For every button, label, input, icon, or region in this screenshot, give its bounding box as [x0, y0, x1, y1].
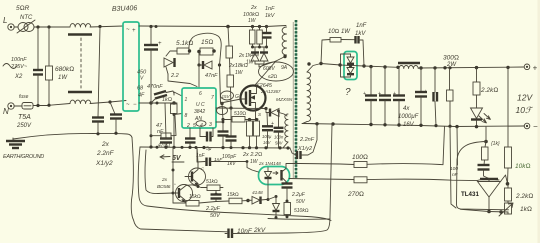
- svg-text:nF: nF: [157, 129, 164, 135]
- svg-text:2: 2: [186, 123, 190, 129]
- svg-text:{1k}: {1k}: [491, 141, 500, 147]
- svg-text:4F: 4F: [138, 93, 145, 99]
- capacitor vcc 100nF: [274, 110, 284, 148]
- svg-text:50V: 50V: [296, 199, 306, 205]
- svg-text:C: C: [201, 166, 204, 171]
- svg-text:15Ω: 15Ω: [201, 39, 213, 46]
- svg-text:50V: 50V: [275, 141, 284, 146]
- resistor 10k divider: [505, 66, 531, 186]
- capacitor 2.2nF X1 bridge: [290, 124, 317, 159]
- svg-text:+: +: [271, 121, 274, 127]
- node j13: [156, 102, 159, 105]
- node j9: [149, 25, 152, 28]
- capacitor opto 2.2uF: [282, 182, 306, 205]
- svg-text:12V: 12V: [517, 93, 533, 103]
- transistor Q3 BC546: [173, 182, 198, 203]
- wire primary ground rail: [140, 147, 290, 148]
- junction dots ground rail secondary: [315, 122, 478, 128]
- svg-text:5ΩR: 5ΩR: [16, 5, 30, 12]
- svg-text:15kΩ: 15kΩ: [189, 194, 201, 200]
- node j1: [36, 25, 39, 28]
- svg-text:X1/y2: X1/y2: [297, 146, 312, 152]
- svg-text:3842: 3842: [194, 109, 205, 115]
- thermistor NTC 5R: [14, 5, 35, 33]
- svg-text:100Ω: 100Ω: [352, 154, 368, 161]
- resistor 15k left: [173, 194, 216, 206]
- capacitor elco 2: [378, 67, 391, 124]
- svg-text:1kΩ: 1kΩ: [162, 97, 172, 103]
- inductor CM choke top winding: [68, 24, 123, 88]
- node j8: [114, 132, 117, 135]
- wire drain diagonal: [255, 57, 284, 85]
- inductor output choke: [398, 63, 524, 69]
- capacitor 100nF comp: [450, 165, 499, 180]
- svg-text:100pF: 100pF: [222, 154, 237, 160]
- wire drop to Y cap 1: [98, 27, 100, 117]
- inductor transformer aux winding: [283, 114, 288, 148]
- svg-text:1W: 1W: [58, 75, 68, 81]
- svg-text:5: 5: [193, 123, 196, 129]
- diode zener D3: [164, 58, 179, 79]
- diode D5 vcc: [266, 109, 287, 117]
- node N terminal: [3, 103, 14, 116]
- resistor 5.1k: [166, 40, 193, 56]
- resistor 270R: [289, 177, 477, 198]
- svg-text:100μ: 100μ: [262, 134, 272, 139]
- svg-text:2.2kΩ: 2.2kΩ: [515, 193, 533, 200]
- capacitor vcc 100uF 16V: [262, 113, 274, 148]
- svg-text:+: +: [132, 28, 136, 34]
- node j5: [47, 104, 50, 107]
- wire earth rail: [13, 133, 132, 139]
- diode LED output: [471, 108, 491, 127]
- svg-text:1W: 1W: [250, 159, 259, 165]
- wire opto feed from 1nF line: [197, 148, 259, 173]
- wire loop primary return: [138, 147, 331, 221]
- label AC sine: [3, 64, 17, 69]
- svg-text:10ℱ: 10ℱ: [516, 105, 534, 115]
- node j3: [98, 25, 101, 28]
- wire vcc rail pin7: [216, 106, 268, 110]
- resistor 2.2k divider: [505, 184, 534, 203]
- svg-text:2x 1N4148: 2x 1N4148: [258, 161, 281, 166]
- svg-text:NTC: NTC: [20, 15, 33, 21]
- node j2: [47, 25, 50, 28]
- capacitor X2 100nF 275V: [10, 27, 43, 104]
- svg-text:2x 2.2Ω: 2x 2.2Ω: [242, 152, 262, 158]
- junction dots: [319, 62, 399, 69]
- svg-text:1kΩ: 1kΩ: [520, 206, 532, 213]
- svg-text:2.2nF: 2.2nF: [96, 150, 115, 157]
- wire earth to secondary gnd with cap: [225, 124, 332, 238]
- wire secondary + rail: [321, 64, 347, 66]
- wire bridge minus: [139, 102, 177, 104]
- label -5V: [160, 155, 184, 162]
- wire opto collector to 100R: [286, 164, 340, 168]
- wire vertical bus t: [172, 147, 174, 203]
- capacitor elco 1: [363, 67, 377, 124]
- svg-text:2.2μF: 2.2μF: [291, 192, 306, 198]
- svg-text:50V: 50V: [210, 213, 221, 219]
- resistor snubber sec 10R 1W: [321, 29, 355, 64]
- svg-text:2.2μF: 2.2μF: [205, 206, 221, 212]
- svg-text:2x: 2x: [250, 5, 257, 11]
- resistor 15R: [197, 39, 216, 55]
- node - terminal: [524, 122, 538, 131]
- svg-text:?: ?: [345, 87, 351, 98]
- svg-text:2.2: 2.2: [170, 73, 179, 79]
- inductor transformer primary: [266, 26, 287, 59]
- svg-text:TL431: TL431: [461, 191, 479, 198]
- resistor 51k feedback: [197, 179, 224, 191]
- wire earth drop to bottom: [131, 138, 227, 232]
- svg-text:275V~: 275V~: [10, 64, 28, 70]
- node j4: [36, 104, 39, 107]
- resistor gate 510: [217, 104, 259, 123]
- resistor 1k vertical left of IC: [162, 92, 182, 147]
- wire opto LED cathode down: [266, 185, 268, 200]
- svg-text:5V: 5V: [172, 155, 182, 162]
- svg-text:100: 100: [450, 166, 458, 172]
- transistor Q2 BC546: [185, 148, 206, 187]
- resistor 2x 100k snubber R2: [257, 25, 263, 47]
- capacitor pin3 filter: [216, 121, 229, 148]
- svg-text:−: −: [133, 102, 137, 108]
- node j10: [155, 25, 158, 28]
- svg-text:2x: 2x: [161, 177, 168, 183]
- svg-text:1nF: 1nF: [265, 6, 275, 12]
- diode zener D7: [268, 195, 280, 219]
- svg-text:U C: U C: [196, 102, 205, 108]
- transformer core: [293, 20, 296, 179]
- optocoupler U2 green oval: [259, 167, 290, 185]
- resistor sense 2.2R a: [247, 120, 253, 148]
- svg-text:47nF: 47nF: [205, 73, 218, 79]
- diode snubber D1 2x1N4007: [238, 47, 259, 66]
- capacitor elco 3: [393, 68, 405, 126]
- svg-text:1kV: 1kV: [265, 13, 276, 19]
- resistor 300R 2W: [443, 55, 459, 127]
- inductor CM choke bottom winding: [50, 92, 126, 105]
- fuse T5A 250V: [14, 94, 50, 129]
- svg-text:680kΩ: 680kΩ: [55, 66, 74, 73]
- svg-text:8: 8: [185, 113, 188, 119]
- wire 270R into TL431 cathode: [477, 180, 481, 181]
- svg-text:6: 6: [199, 91, 202, 97]
- svg-text:10Ω 1W: 10Ω 1W: [328, 29, 351, 35]
- svg-text:L: L: [3, 16, 7, 25]
- svg-text:51kΩ: 51kΩ: [206, 179, 218, 185]
- svg-text:S: S: [258, 112, 261, 117]
- svg-text:2W: 2W: [446, 62, 457, 68]
- capacitor film output: [434, 68, 438, 126]
- shunt regulator U3 TL431: [461, 175, 508, 213]
- svg-text:1000μF: 1000μF: [398, 114, 419, 120]
- svg-text:68: 68: [137, 86, 144, 92]
- rectifier output dual diode green box: [341, 52, 358, 99]
- resistor 15k right: [216, 192, 250, 204]
- resistor 2x 100k snubber R1: [243, 5, 259, 47]
- label MOSFET notes oval: [256, 62, 294, 94]
- resistor 1k comp: [482, 142, 489, 166]
- wire DC+ rail: [139, 25, 228, 28]
- svg-text:G: G: [235, 94, 239, 100]
- wire gate loop arc: [189, 33, 221, 51]
- capacitor elco 4: [415, 68, 427, 125]
- wire L rail: [34, 26, 70, 28]
- svg-text:2-A12367: 2-A12367: [260, 89, 281, 94]
- svg-text:~: ~: [126, 27, 130, 33]
- svg-text:5μ: 5μ: [206, 146, 212, 152]
- node j14: [172, 101, 175, 104]
- svg-text:4148: 4148: [252, 190, 263, 196]
- svg-text:1nF: 1nF: [356, 23, 367, 29]
- label 2x 2.2nF X1/y2: [95, 141, 115, 167]
- svg-text:100n: 100n: [274, 135, 284, 140]
- rectifier bridge B3U406 green box: [112, 5, 139, 111]
- diode D4 47nF antiparallel: [197, 52, 221, 79]
- wire drop to Y cap 2: [110, 102, 115, 114]
- diode D6 4148: [248, 190, 266, 204]
- svg-text:2x: 2x: [101, 141, 110, 148]
- wire bottom rail tl431: [461, 209, 490, 211]
- svg-text:2x18kΩ: 2x18kΩ: [228, 63, 248, 69]
- svg-text:15V: 15V: [222, 94, 231, 99]
- capacitor 2.2uF 50V: [205, 191, 222, 220]
- junction dots output rail: [419, 66, 478, 70]
- svg-text:10nF: 10nF: [237, 228, 253, 235]
- wire gnd drop right: [450, 126, 456, 208]
- svg-text:7: 7: [211, 95, 214, 101]
- svg-text:fuse: fuse: [19, 94, 29, 100]
- inductor transformer secondary: [303, 62, 321, 124]
- node + terminal: [524, 64, 537, 73]
- diode snubber D2: [255, 47, 276, 67]
- resistor 510k: [284, 200, 309, 219]
- transistor Q1 MOSFET K2645: [241, 86, 266, 120]
- capacitor Y1 2.2nF: [92, 118, 104, 134]
- svg-text:250V: 250V: [16, 123, 32, 129]
- capacitor Y2 2.2nF: [110, 115, 122, 134]
- ground earth symbol: [3, 138, 44, 160]
- svg-text:16V: 16V: [263, 140, 272, 145]
- capacitor bulk 68uF 450V: [137, 27, 162, 103]
- svg-text:EARTH/GROUND: EARTH/GROUND: [3, 154, 44, 160]
- pwm controller U1 UC3842 green box: [182, 88, 216, 129]
- svg-text:+: +: [533, 64, 538, 73]
- svg-text:2.2kΩ: 2.2kΩ: [480, 87, 498, 94]
- svg-text:270Ω: 270Ω: [347, 191, 364, 198]
- node j6: [108, 100, 111, 103]
- label 4x 1000uF 16V: [398, 106, 419, 128]
- svg-text:N: N: [3, 107, 9, 116]
- label circled 15V: [221, 91, 234, 100]
- svg-text:B3U406: B3U406: [112, 5, 138, 13]
- svg-text:1W: 1W: [235, 70, 244, 76]
- svg-text:9A: 9A: [281, 65, 288, 71]
- svg-text:1W: 1W: [248, 18, 257, 24]
- svg-text:MZX5N: MZX5N: [276, 97, 293, 103]
- wire tl431 gnd branch: [457, 127, 509, 210]
- svg-text:15kΩ: 15kΩ: [227, 192, 239, 198]
- resistor 100R: [340, 127, 445, 168]
- resistor startup lower: [227, 75, 234, 108]
- node L terminal: [3, 16, 14, 30]
- svg-text:1kV: 1kV: [355, 31, 366, 37]
- svg-text:100nF: 100nF: [11, 57, 27, 63]
- capacitor 470nF tilted: [147, 84, 174, 103]
- svg-text:4x: 4x: [403, 106, 410, 112]
- resistor startup 2x18k 1W upper: [226, 27, 248, 77]
- capacitor 47nF: [156, 103, 172, 147]
- svg-text:300Ω: 300Ω: [443, 55, 459, 62]
- wire secondary ground rail: [302, 124, 525, 127]
- wire gate drive: [168, 48, 241, 105]
- capacitor snubber sec 1nF 1kV: [355, 23, 367, 66]
- svg-text:1: 1: [185, 97, 188, 103]
- resistor sense 2.2R b: [242, 121, 262, 165]
- svg-text:+: +: [158, 41, 162, 47]
- svg-text:470nF: 470nF: [147, 84, 163, 90]
- svg-text:X2: X2: [14, 74, 23, 80]
- svg-text:~: ~: [126, 102, 130, 108]
- svg-text:≤2Ω: ≤2Ω: [268, 74, 278, 80]
- capacitor pin4: [200, 128, 213, 152]
- svg-text:600V: 600V: [263, 66, 275, 72]
- svg-text:X1/y2: X1/y2: [95, 160, 113, 167]
- svg-text:BC546: BC546: [157, 184, 171, 190]
- wire opto cluster bottom: [268, 218, 330, 221]
- resistor 680k 1W: [46, 27, 75, 104]
- capacitor pin5 1nF: [185, 128, 206, 159]
- capacitor 100pF 1kV: [222, 108, 237, 167]
- node j7: [96, 132, 99, 135]
- resistor 2.2k LED: [473, 68, 498, 108]
- node j12: [149, 101, 152, 104]
- svg-text:1nF: 1nF: [214, 157, 223, 163]
- label 2x BC546: [157, 177, 171, 190]
- svg-text:510kΩ: 510kΩ: [294, 208, 309, 214]
- svg-text:2.2nF: 2.2nF: [299, 137, 315, 143]
- wire snubber join: [253, 46, 267, 48]
- svg-text:10kΩ: 10kΩ: [515, 163, 530, 170]
- resistor 470R below IC: [150, 103, 177, 149]
- node j11: [226, 25, 230, 29]
- junction dots ground rail: [149, 145, 289, 149]
- svg-text:T5A: T5A: [18, 114, 31, 121]
- label 12V 10A: [516, 93, 534, 116]
- svg-text:2kV: 2kV: [253, 227, 266, 234]
- svg-text:−: −: [533, 122, 538, 131]
- resistor 1k trimmer: [489, 203, 532, 216]
- scan artifact edge: [538, 0, 540, 243]
- wire base feed left: [145, 150, 173, 194]
- capacitor snubber 1nF 1kV: [263, 6, 276, 47]
- svg-text:3: 3: [209, 122, 212, 128]
